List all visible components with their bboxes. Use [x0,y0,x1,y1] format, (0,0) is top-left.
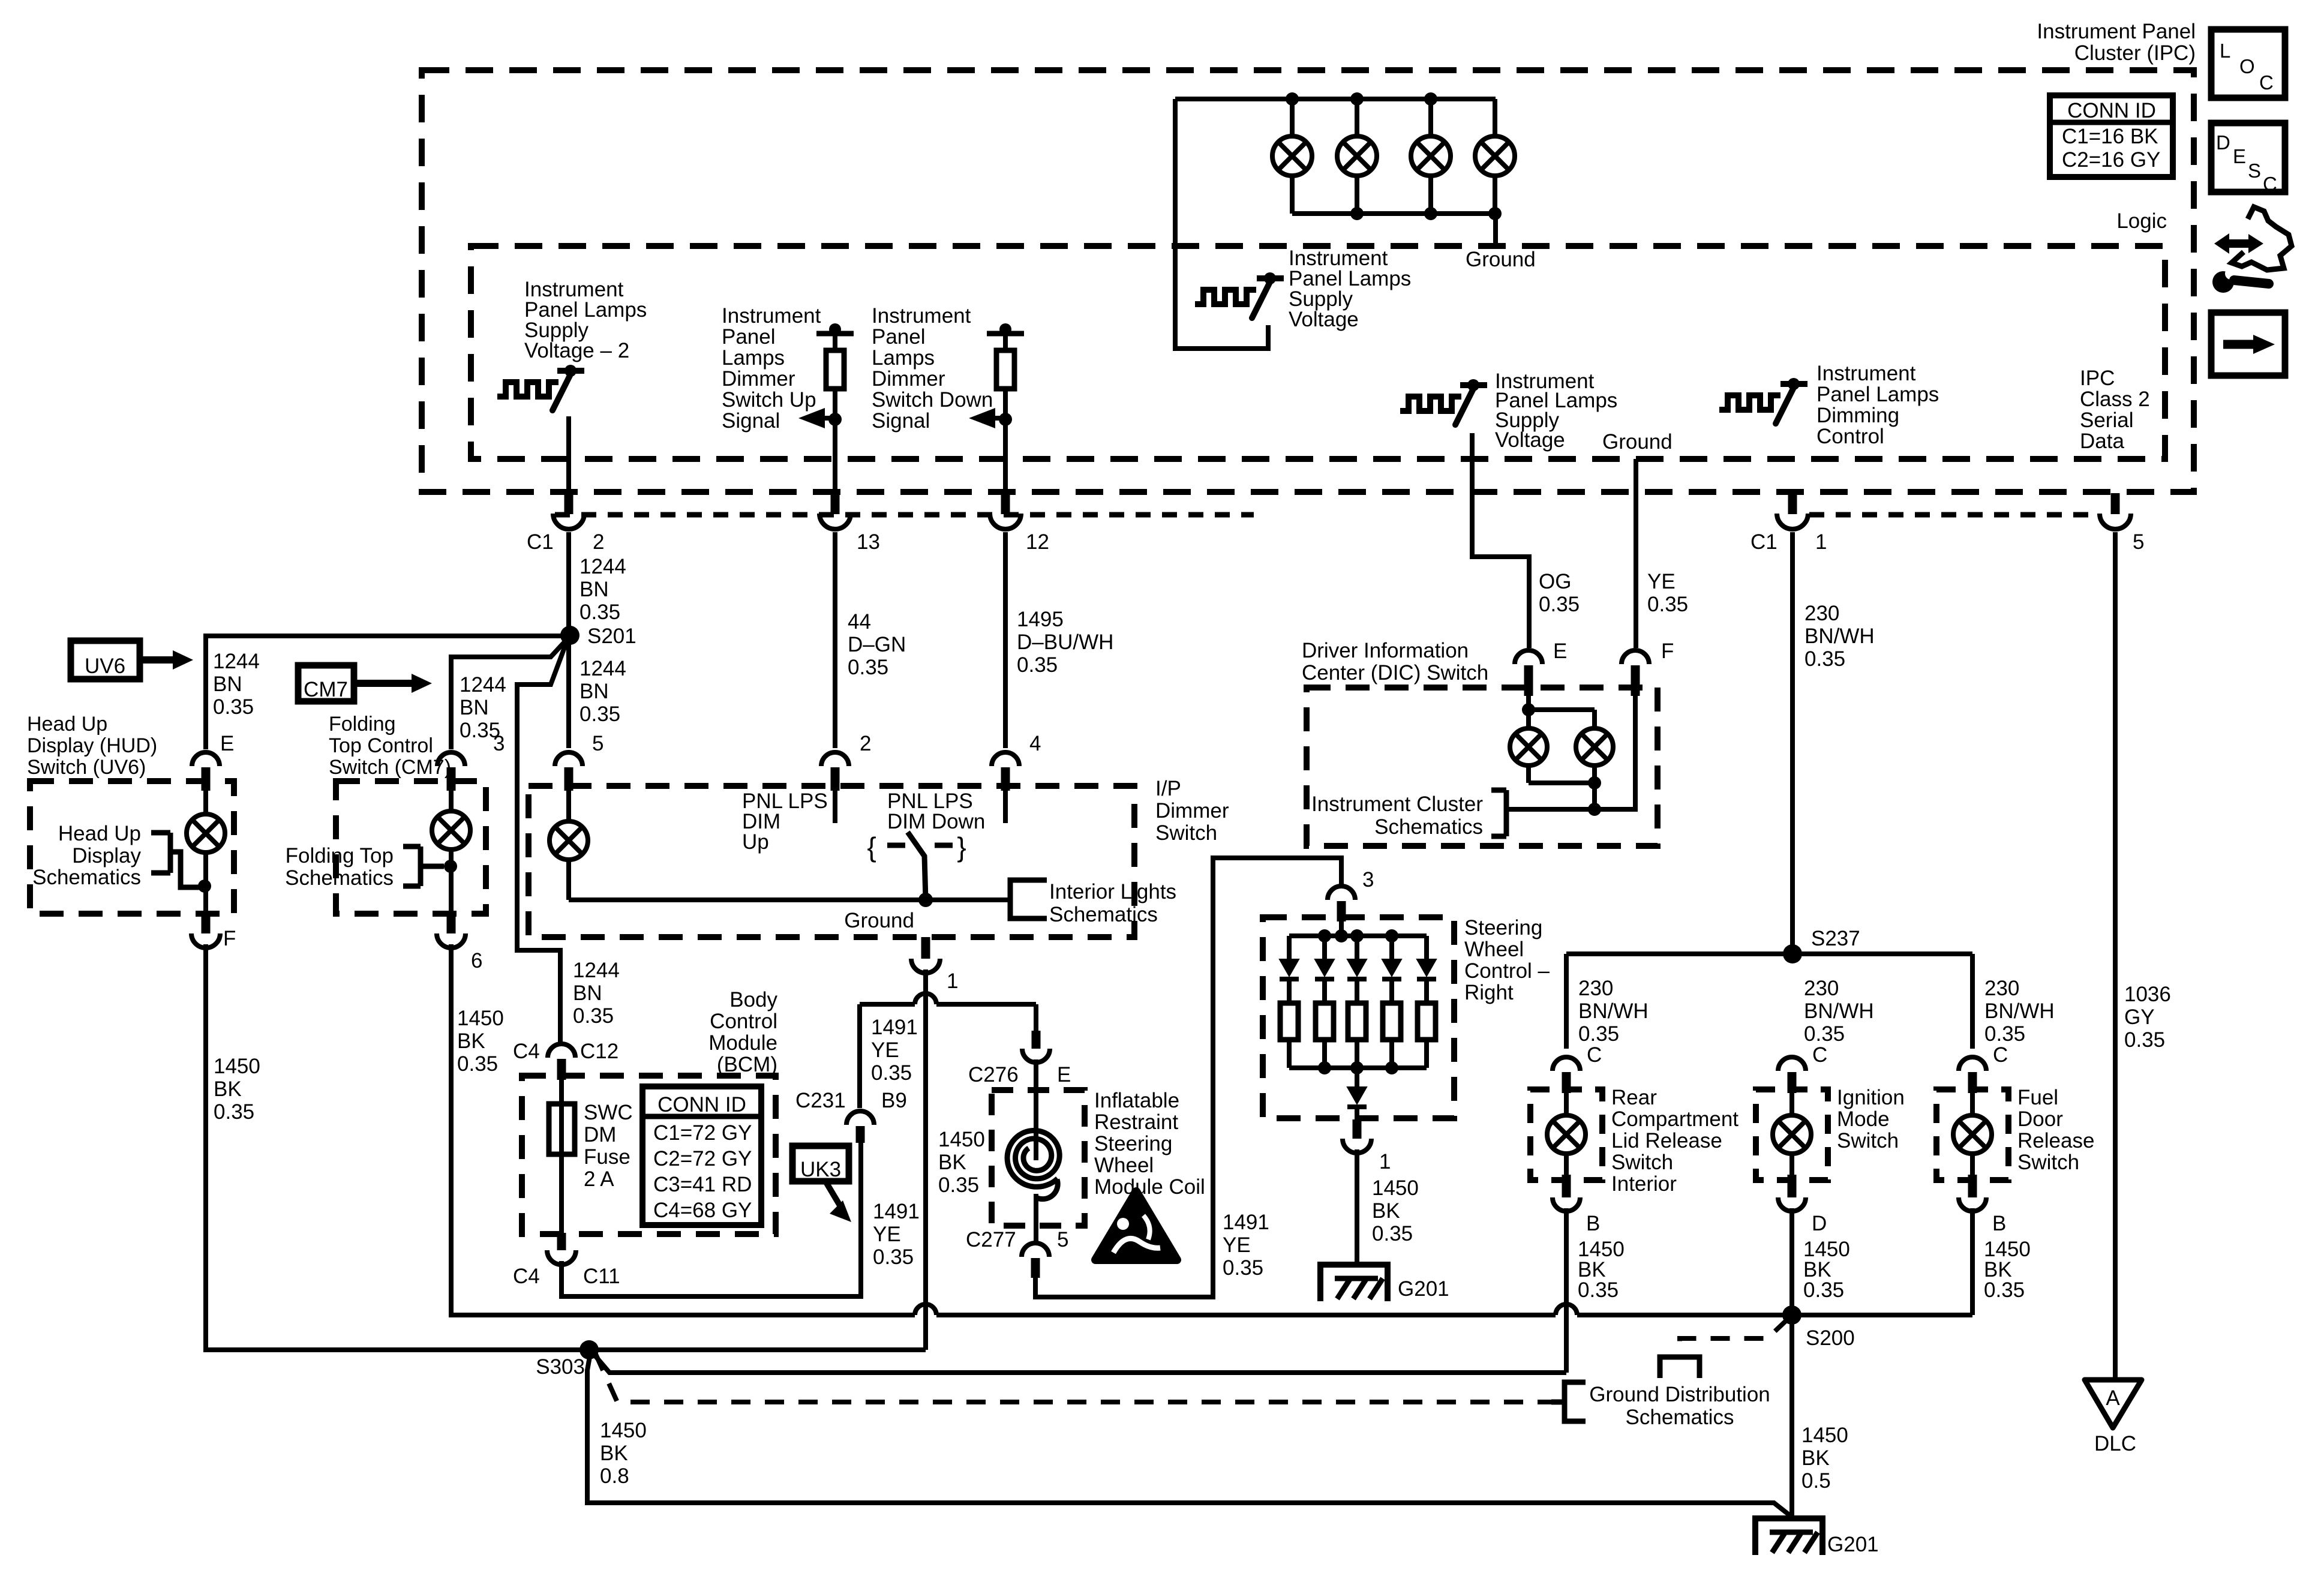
svg-text:0.35: 0.35 [457,1052,498,1076]
svg-text:SWC: SWC [584,1101,633,1124]
diode+resistor column x=2262 [1355,936,1359,959]
svg-text:B: B [1586,1212,1600,1235]
svg-text:Switch: Switch [1837,1129,1899,1152]
svg-text:1244: 1244 [573,959,620,982]
svg-text:Panel: Panel [872,325,926,349]
double arrow [2227,239,2250,248]
svg-text:BK: BK [938,1151,966,1174]
wire rear B down through bus to line B [1564,1208,1569,1373]
svg-text:Door: Door [2017,1107,2063,1131]
SRS warning icon [1095,1191,1177,1260]
C277 5 connector [1022,1243,1049,1257]
svg-text:Ground: Ground [1466,248,1536,271]
wire S200 to G201 [1789,1315,1794,1518]
line B from S303 to rear branch [592,1352,1566,1373]
pwm symbol: Instrument Panel Lamps Supply Voltage (loop) [1175,99,1268,349]
LOC icon box [2211,29,2285,98]
svg-text:BN: BN [213,673,242,696]
svg-text:5: 5 [2133,530,2144,554]
svg-text:Interior: Interior [1611,1172,1677,1196]
svg-text:0.35: 0.35 [1647,593,1688,616]
svg-text:3: 3 [493,732,505,755]
svg-text:Folding Top: Folding Top [286,844,394,867]
svg-text:E: E [2233,145,2246,167]
svg-text:Driver Information: Driver Information [1302,639,1469,662]
branch S201 to folding top switch [451,641,566,749]
connector pin 12 at IPC bottom [1001,493,1010,514]
svg-text:DM: DM [584,1123,616,1146]
wire pin1 (dimming) down to S237 [1790,532,1795,954]
CONN ID box (IPC) [2050,95,2173,177]
svg-text:Restraint: Restraint [1094,1110,1178,1134]
svg-text:S237: S237 [1811,927,1860,950]
svg-text:C2=72 GY: C2=72 GY [653,1147,752,1170]
DLC connector triangle [2085,1380,2142,1428]
connector E [192,752,220,766]
svg-text:2: 2 [860,732,871,755]
Steering Wheel Control Right box [1263,917,1454,1118]
svg-text:1450: 1450 [214,1055,260,1078]
wire pin5 (serial) down to DLC [2113,532,2118,1380]
svg-text:F: F [223,927,236,950]
svg-text:(BCM): (BCM) [717,1053,777,1076]
connector 4 [992,752,1019,766]
svg-text:0.5: 0.5 [1801,1469,1831,1493]
Ignition Mode Switch box [1756,1089,1828,1180]
diode+resistor column x=2208 [1322,936,1327,959]
svg-text:BN/WH: BN/WH [1984,999,2055,1023]
output diode [1355,1068,1359,1087]
ground bus (S200) [915,1304,936,1315]
DIC E connector [1515,650,1542,664]
svg-text:Right: Right [1464,981,1514,1004]
svg-text:Display (HUD): Display (HUD) [27,734,157,757]
ground distribution bracket top [1660,1357,1700,1378]
wire to G201 [1355,1149,1359,1265]
svg-text:0.35: 0.35 [1017,653,1058,677]
svg-text:BN: BN [573,981,602,1005]
svg-text:BN/WH: BN/WH [1804,999,1874,1023]
svg-text:BN/WH: BN/WH [1804,625,1875,648]
svg-text:Lid Release: Lid Release [1611,1129,1722,1152]
pwm symbol: Instrument Panel Lamps Supply Voltage (right) [1400,397,1461,411]
svg-text:Panel: Panel [722,325,776,349]
svg-text:B9: B9 [881,1089,907,1112]
svg-text:UV6: UV6 [85,655,125,678]
svg-text:Wheel: Wheel [1464,938,1524,961]
svg-text:BK: BK [1801,1446,1830,1470]
svg-text:C: C [2263,173,2277,195]
svg-text:BK: BK [457,1029,485,1053]
wire YE to DIC F [1634,459,1638,648]
svg-text:0.35: 0.35 [1578,1278,1619,1302]
svg-text:3: 3 [1362,868,1374,891]
svg-text:Schematics: Schematics [32,866,141,889]
svg-text:OG: OG [1539,570,1571,593]
svg-text:I/P: I/P [1155,777,1181,800]
svg-text:Signal: Signal [722,409,780,433]
wire dimmer pin1 to S303 bus [923,969,928,1350]
svg-text:Control: Control [710,1010,777,1033]
svg-text:C1=72 GY: C1=72 GY [653,1121,752,1145]
svg-text:}: } [957,831,966,863]
svg-text:1450: 1450 [457,1007,504,1030]
svg-text:Panel Lamps: Panel Lamps [1816,383,1939,406]
svg-text:0.35: 0.35 [1804,647,1845,671]
svg-text:C276: C276 [968,1063,1019,1086]
svg-text:D–BU/WH: D–BU/WH [1017,631,1113,654]
svg-text:E: E [220,732,234,755]
connector 2 [821,752,849,766]
folding top lamp [449,791,454,811]
svg-text:Ground Distribution: Ground Distribution [1589,1383,1770,1406]
connector pin 2 at IPC bottom [565,493,574,514]
ground G201 (steering) [1320,1265,1388,1301]
svg-text:Control –: Control – [1464,959,1550,983]
svg-text:C4: C4 [513,1265,540,1288]
svg-text:A: A [2106,1386,2120,1410]
svg-text:230: 230 [1804,977,1839,1000]
svg-text:0.35: 0.35 [871,1061,912,1085]
lamp bus bottom [1292,211,1496,216]
Instrument Cluster Schematics pointer [1491,788,1506,793]
dimmer down switch stub [1003,770,1008,823]
S201 junction [560,626,580,645]
ground wire from lamps [1493,214,1498,246]
svg-text:0.35: 0.35 [1804,1022,1845,1046]
svg-text:C: C [1587,1043,1602,1067]
svg-text:Voltage – 2: Voltage – 2 [524,339,629,362]
svg-text:DLC: DLC [2094,1432,2136,1455]
svg-text:BK: BK [214,1077,242,1101]
svg-text:C: C [2259,71,2274,94]
svg-text:0.35: 0.35 [573,1004,614,1028]
fuel door branch [1970,954,1975,1049]
svg-text:0.35: 0.35 [2124,1028,2165,1052]
I/P Dimmer Switch box [529,786,1134,937]
wire folding 6 to ground bus [451,944,915,1315]
svg-text:2: 2 [593,530,604,554]
svg-text:0.35: 0.35 [1578,1022,1619,1046]
Instrument Panel Cluster (IPC) box [422,70,2194,492]
svg-text:Voltage: Voltage [1495,428,1565,452]
svg-text:C1=16 BK: C1=16 BK [2062,125,2158,148]
svg-text:BN: BN [580,680,609,703]
svg-text:Dimming: Dimming [1816,404,1899,427]
svg-text:BK: BK [1372,1199,1400,1223]
svg-text:230: 230 [1984,977,2019,1000]
IPC illumination lamp 4 [1493,99,1497,137]
svg-text:Lamps: Lamps [872,346,935,370]
diode/resistor network [1339,921,1344,936]
svg-text:Switch (UV6): Switch (UV6) [27,756,146,779]
svg-text:E: E [1057,1063,1071,1086]
svg-text:Inflatable: Inflatable [1094,1089,1179,1112]
svg-text:13: 13 [857,530,880,554]
Body Control Module (BCM) box [522,1076,776,1234]
connector pin 13 at IPC bottom [831,493,840,514]
svg-text:Schematics: Schematics [1626,1406,1734,1429]
svg-text:CONN ID: CONN ID [2067,99,2156,122]
DESC icon box [2211,123,2285,192]
IPC illumination lamp 3 [1428,99,1433,137]
branch S201 to HUD switch [206,636,570,749]
Head Up Display (HUD) Switch box [30,781,234,914]
UV6 reference box [71,641,140,679]
svg-text:Folding: Folding [329,713,396,736]
svg-text:0.35: 0.35 [1984,1278,2025,1302]
BCM C4/C11 connector [557,1233,566,1250]
svg-text:D–GN: D–GN [848,633,906,656]
svg-text:0.35: 0.35 [214,1100,254,1124]
rear compartment branch [1564,954,1569,1049]
diode+resistor column x=2378 [1424,936,1429,959]
S303 to ground distribution dashed [595,1353,1551,1402]
wire pin2 to S201 to dimmer pin5 [566,532,571,748]
svg-text:G201: G201 [1398,1277,1449,1301]
svg-text:Ground: Ground [844,909,914,932]
pwm symbol: Instrument Panel Lamps Dimming Control [1719,395,1780,410]
svg-text:Center (DIC) Switch: Center (DIC) Switch [1302,661,1488,685]
Rear Compartment Lid Release Switch box [1530,1089,1602,1180]
lamp bus top [1175,97,1496,101]
svg-text:C: C [1993,1043,2008,1067]
svg-text:Dimmer: Dimmer [722,367,795,391]
diagnostic connector icon [2232,207,2292,270]
wire ignition D down to S200 [1789,1208,1794,1315]
svg-text:Instrument: Instrument [722,304,821,328]
svg-text:Module Coil: Module Coil [1094,1175,1205,1199]
svg-text:Fuel: Fuel [2017,1086,2058,1109]
wire C231 to C276 (hop over dimmer gnd) [860,1002,915,1007]
svg-text:S200: S200 [1806,1326,1855,1350]
wire BCM C11 to B9 riser [562,1139,861,1296]
svg-text:Compartment: Compartment [1611,1107,1739,1131]
svg-text:Ground: Ground [1602,430,1673,454]
svg-text:1: 1 [1815,530,1827,554]
svg-text:YE: YE [873,1223,901,1246]
ground distribution bracket left [1565,1382,1586,1421]
svg-text:IPC: IPC [2080,367,2115,390]
svg-text:44: 44 [848,610,871,634]
right arrow icon box [2211,313,2285,376]
dimmer switch signal resistor column pin 13 [816,331,854,337]
svg-text:1244: 1244 [580,555,626,578]
svg-text:L: L [2220,40,2230,62]
svg-text:C231: C231 [795,1089,846,1112]
svg-text:Switch Up: Switch Up [722,388,816,412]
C276 E connector [1032,1031,1041,1049]
DIC F wire [1595,696,1635,809]
svg-text:0.35: 0.35 [1984,1022,2025,1046]
svg-text:C1: C1 [1750,530,1777,554]
svg-text:C12: C12 [580,1040,618,1063]
svg-text:Mode: Mode [1837,1107,1890,1131]
svg-text:C3=41 RD: C3=41 RD [653,1173,752,1196]
S237 junction [1783,944,1802,963]
svg-text:Head Up: Head Up [58,822,141,845]
svg-text:0.35: 0.35 [213,695,254,719]
steering pin 3 connector [1328,886,1355,900]
DIC F connector [1622,650,1649,664]
svg-text:0.35: 0.35 [580,703,620,726]
connector 5 [555,752,582,766]
svg-text:0.35: 0.35 [938,1173,979,1197]
ground G201 (main) [1755,1518,1822,1555]
svg-text:Rear: Rear [1611,1086,1657,1109]
svg-text:E: E [1553,640,1567,663]
svg-text:6: 6 [471,949,482,972]
IPC illumination lamp 2 [1355,99,1359,137]
svg-text:Lamps: Lamps [722,346,785,370]
svg-text:Ignition: Ignition [1837,1086,1905,1109]
svg-text:1244: 1244 [580,657,626,680]
S200 to ground distribution dashed [1680,1318,1789,1357]
dimmer illumination lamp [566,791,571,821]
svg-text:UK3: UK3 [800,1158,841,1181]
Fuel Door Release Switch box [1936,1089,2008,1180]
svg-text:Instrument Panel: Instrument Panel [2037,20,2196,43]
svg-text:Schematics: Schematics [285,866,394,890]
svg-text:Cluster (IPC): Cluster (IPC) [2074,41,2196,65]
wire C277 to steering pin3 [1035,858,1341,1297]
svg-text:1491: 1491 [1223,1211,1269,1234]
svg-text:Release: Release [2017,1129,2094,1152]
svg-text:Body: Body [729,988,777,1011]
connector 3 [437,752,465,766]
dimmer switch signal resistor column pin 12 [987,331,1024,337]
svg-text:0.35: 0.35 [580,601,620,624]
svg-text:Fuse: Fuse [584,1145,630,1169]
svg-text:Class 2: Class 2 [2080,388,2150,411]
IPC logic box [471,246,2165,459]
dimmer pin 1 connector [921,937,930,959]
svg-text:BN: BN [580,578,609,601]
Folding Top Control Switch box [336,781,486,914]
SWC DM fuse [559,1080,564,1104]
connector row dotted line right [1809,512,2100,518]
svg-text:0.35: 0.35 [848,656,888,679]
wrench icon [2212,271,2234,293]
dimmer up switch stub [833,770,837,823]
svg-text:Steering: Steering [1464,916,1542,939]
HUD lamp [203,791,208,814]
branch S201 to BCM C12 [517,640,568,1042]
Inflatable Restraint Steering Wheel Module Coil box [992,1090,1085,1226]
DIC lamps [1526,696,1531,728]
svg-text:Switch: Switch [1155,821,1217,845]
svg-text:O: O [2239,55,2255,77]
wire pin12 to dimmer pin4 [1003,532,1008,748]
wire OG to DIC E [1472,433,1529,648]
connector pin 1 at IPC bottom [1788,493,1797,514]
svg-text:GY: GY [2124,1005,2155,1029]
svg-text:S303: S303 [536,1355,585,1379]
svg-text:4: 4 [1029,732,1041,755]
wire pin13 to dimmer pin2 [833,532,837,748]
diode+resistor column x=2149 [1287,936,1292,959]
svg-text:C: C [1812,1043,1827,1067]
svg-text:C4: C4 [513,1040,540,1063]
svg-text:1495: 1495 [1017,608,1064,631]
svg-text:Dimmer: Dimmer [872,367,945,391]
svg-text:0.35: 0.35 [1372,1222,1413,1245]
S200 junction [1782,1305,1801,1325]
diode+resistor column x=2320 [1389,936,1394,959]
svg-text:1036: 1036 [2124,983,2171,1006]
svg-text:Schematics: Schematics [1374,815,1483,839]
svg-text:1491: 1491 [873,1200,920,1223]
coil exit hook [1036,1179,1058,1199]
svg-text:Display: Display [72,844,141,867]
svg-text:{: { [867,831,876,863]
svg-text:Module: Module [708,1031,777,1055]
svg-text:BN: BN [460,696,489,719]
svg-text:Head Up: Head Up [27,713,107,736]
IPC illumination lamp 1 [1290,99,1295,137]
svg-text:CM7: CM7 [304,678,348,701]
svg-text:230: 230 [1578,977,1613,1000]
svg-text:Serial: Serial [2080,409,2133,432]
svg-text:Switch: Switch [1611,1151,1673,1174]
svg-text:2 A: 2 A [584,1167,614,1191]
svg-text:Wheel: Wheel [1094,1154,1154,1177]
svg-text:B: B [1992,1212,2006,1235]
svg-text:DIM Down: DIM Down [887,810,985,833]
BCM C4/C12 connector [548,1044,575,1058]
svg-text:Switch: Switch [2017,1151,2079,1174]
connector pin 5 at IPC bottom [2111,493,2120,514]
BCM CONN ID box [642,1086,761,1225]
svg-text:1491: 1491 [871,1016,918,1039]
svg-text:0.35: 0.35 [1539,593,1580,616]
svg-text:1244: 1244 [213,650,260,673]
svg-text:Instrument: Instrument [872,304,971,328]
pwm symbol: Instrument Panel Lamps Supply Voltage - 2 [497,382,559,397]
svg-text:5: 5 [1057,1228,1068,1251]
svg-text:Top Control: Top Control [329,734,433,757]
svg-text:Voltage: Voltage [1289,308,1359,331]
svg-text:1244: 1244 [460,673,506,697]
svg-text:C1: C1 [527,530,554,554]
svg-text:D: D [1812,1212,1827,1235]
CM7 reference box [298,665,354,701]
svg-text:Up: Up [742,830,769,854]
svg-text:YE: YE [871,1038,899,1062]
svg-text:Instrument: Instrument [1816,362,1916,385]
svg-text:F: F [1661,640,1674,663]
svg-text:Schematics: Schematics [1049,903,1158,926]
wire B9 up to coil feed [857,1004,862,1108]
svg-text:Switch (CM7): Switch (CM7) [329,756,451,779]
Interior Lights Schematics pointer [1010,880,1047,918]
svg-text:12: 12 [1026,530,1049,554]
svg-text:0.35: 0.35 [1223,1256,1263,1280]
svg-text:0.8: 0.8 [600,1464,629,1488]
connector row dotted line left [555,512,1254,518]
HUD F connector [202,914,211,933]
svg-text:1: 1 [1379,1150,1391,1173]
svg-text:Steering: Steering [1094,1132,1172,1155]
svg-text:Logic: Logic [2116,209,2167,233]
steering wheel module coil spiral [1007,1130,1059,1187]
svg-text:G201: G201 [1827,1533,1879,1556]
svg-text:0.35: 0.35 [873,1245,914,1269]
wire pin C1-2 [566,416,571,493]
svg-text:C2=16 GY: C2=16 GY [2062,148,2160,172]
C231 B9 connector [846,1111,874,1125]
svg-text:0.35: 0.35 [1803,1278,1844,1302]
